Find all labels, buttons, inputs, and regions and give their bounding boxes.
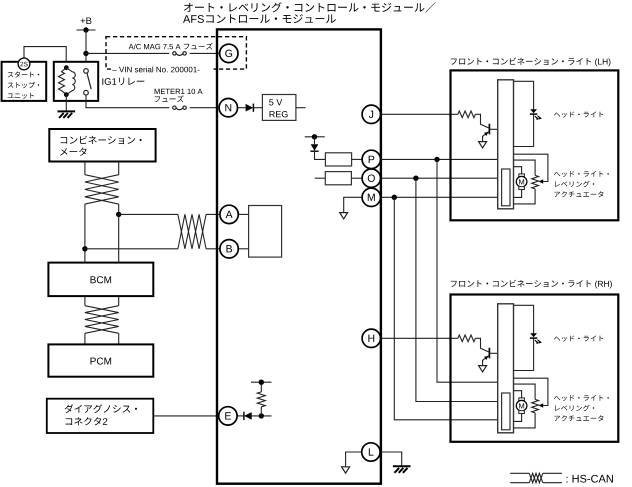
M internal wire to float gnd [344, 197, 363, 212]
relay switch contact top [84, 69, 89, 74]
label VIN serial [111, 64, 214, 74]
front combination light (LH) box [451, 70, 619, 220]
relay coil node top [64, 65, 69, 70]
wire CAN to B [85, 248, 220, 250]
wire coil to ground [65, 95, 67, 112]
combination meter box [49, 129, 155, 162]
label actuator LH [554, 171, 609, 197]
wire REG output stub [296, 107, 306, 109]
port H [362, 329, 380, 347]
node O branch [413, 176, 418, 181]
leveling motor LH [514, 167, 527, 198]
resistor to P [325, 153, 362, 166]
relay switch contact bottom [84, 90, 89, 95]
lamp connector LH [498, 80, 514, 209]
port J [362, 105, 380, 123]
P pull-up rail stub [305, 136, 325, 138]
position sensor resistor RH [514, 384, 539, 428]
port G [220, 44, 238, 62]
front combination light (RH) box [451, 295, 619, 442]
wire diagnosis to E [153, 415, 219, 417]
wire O branch down to RH [416, 178, 502, 401]
transistor LH [483, 124, 498, 142]
label IG1 relay [102, 78, 144, 86]
L external ground wire [380, 452, 402, 466]
port L [362, 443, 380, 461]
lamp connector RH [498, 304, 514, 433]
+B label [81, 17, 92, 24]
wire +B down to relay switch [85, 30, 87, 69]
wire O to LH actuator [380, 177, 501, 179]
auto leveling control module box [217, 29, 381, 483]
start-stop unit box [2, 62, 47, 101]
HS-CAN legend symbol [510, 473, 562, 482]
module title line 2 [183, 14, 336, 23]
CAN bus verticals [85, 204, 119, 263]
front combination light (RH) title [451, 280, 612, 289]
label actuator RH [554, 395, 609, 421]
diagnosis connector 2 box [47, 399, 154, 433]
actuator connector RH [502, 393, 510, 430]
float ground L [342, 467, 350, 473]
headlight LED circuit LH [514, 81, 543, 146]
wire J to LH headlight [380, 113, 458, 115]
position sensor resistor LH [514, 160, 539, 204]
wire +B to fuse [86, 52, 169, 54]
float ground M [340, 213, 348, 219]
connector 2S [18, 58, 30, 70]
E pull-up rail stub [251, 381, 272, 383]
module title line 1 [184, 2, 436, 12]
L internal wire [346, 452, 362, 467]
wire CAN to A [119, 213, 221, 215]
port P [362, 150, 380, 168]
twisted pair to A/B [178, 214, 206, 248]
relay coil node bottom [64, 92, 69, 97]
resistor to O [315, 172, 363, 185]
float ground transistor LH [479, 142, 487, 148]
port M [362, 188, 380, 206]
+B terminal [77, 27, 96, 32]
actuator connector LH [502, 169, 510, 206]
wire M branch down to RH [394, 197, 501, 419]
label A/C MAG 7.5 A fuse [129, 43, 213, 50]
port A [220, 205, 238, 223]
port E [219, 407, 237, 425]
5V REG box [262, 95, 296, 121]
label headlight LH [554, 112, 603, 118]
node P branch [434, 157, 439, 162]
label headlight RH [554, 336, 603, 342]
fuse A/C MAG 7.5 A [173, 52, 187, 56]
node P rail [312, 134, 317, 139]
ground relay coil [58, 111, 76, 118]
pull-up resistor at E [257, 382, 265, 416]
relay coil resistor branch [59, 68, 67, 95]
twisted pair BCM-PCM [85, 306, 119, 334]
wire M to LH actuator [380, 196, 501, 198]
node CAN-H tap [116, 212, 121, 217]
label HS-CAN [567, 475, 613, 483]
wires meter to twist [85, 162, 119, 175]
node E rail [259, 380, 264, 385]
chassis ground L [393, 466, 411, 473]
wire fuse to N [190, 107, 220, 109]
wire P to LH lamp connector [380, 158, 498, 160]
diode at E [237, 412, 272, 420]
base resistor RH [458, 335, 476, 342]
twisted pair meter-CAN [85, 175, 119, 204]
PCM box [48, 344, 153, 376]
label METER1 10 A fuse [155, 89, 203, 102]
front combination light (LH) title [451, 58, 611, 67]
diode P rail [310, 137, 325, 160]
wire B to CAN block [238, 248, 249, 250]
node M branch [392, 195, 397, 200]
port N [219, 99, 237, 117]
node E-resistor [259, 413, 264, 418]
CAN transceiver block [249, 206, 282, 258]
IG1 relay box [54, 62, 98, 101]
wire P branch down to RH [437, 159, 499, 382]
wire H to RH headlight [380, 337, 458, 339]
wires BCM to twist [85, 296, 119, 306]
base resistor LH [458, 111, 476, 118]
leveling motor RH [514, 391, 527, 422]
wiper feedback wire RH [514, 378, 548, 408]
BCM box [48, 263, 153, 297]
wire A to CAN block [238, 213, 249, 215]
port B [220, 240, 238, 258]
junction +B / AC MAG [83, 51, 88, 56]
transistor RH [483, 348, 498, 366]
dashed VIN box [106, 37, 246, 69]
wire 2S to relay coil [24, 47, 66, 68]
wire fuse to G [190, 52, 220, 54]
node CAN-L tap [82, 246, 87, 251]
fuse METER1 10 A [173, 106, 187, 110]
relay switch blade [87, 73, 91, 89]
diode after N [237, 104, 262, 112]
headlight LED circuit RH [514, 305, 543, 370]
wire relay switch to fuse [86, 95, 169, 108]
relay coil inductor branch [66, 68, 75, 95]
port O [362, 169, 380, 187]
wiper feedback wire LH [514, 154, 548, 184]
float ground transistor RH [479, 366, 487, 372]
